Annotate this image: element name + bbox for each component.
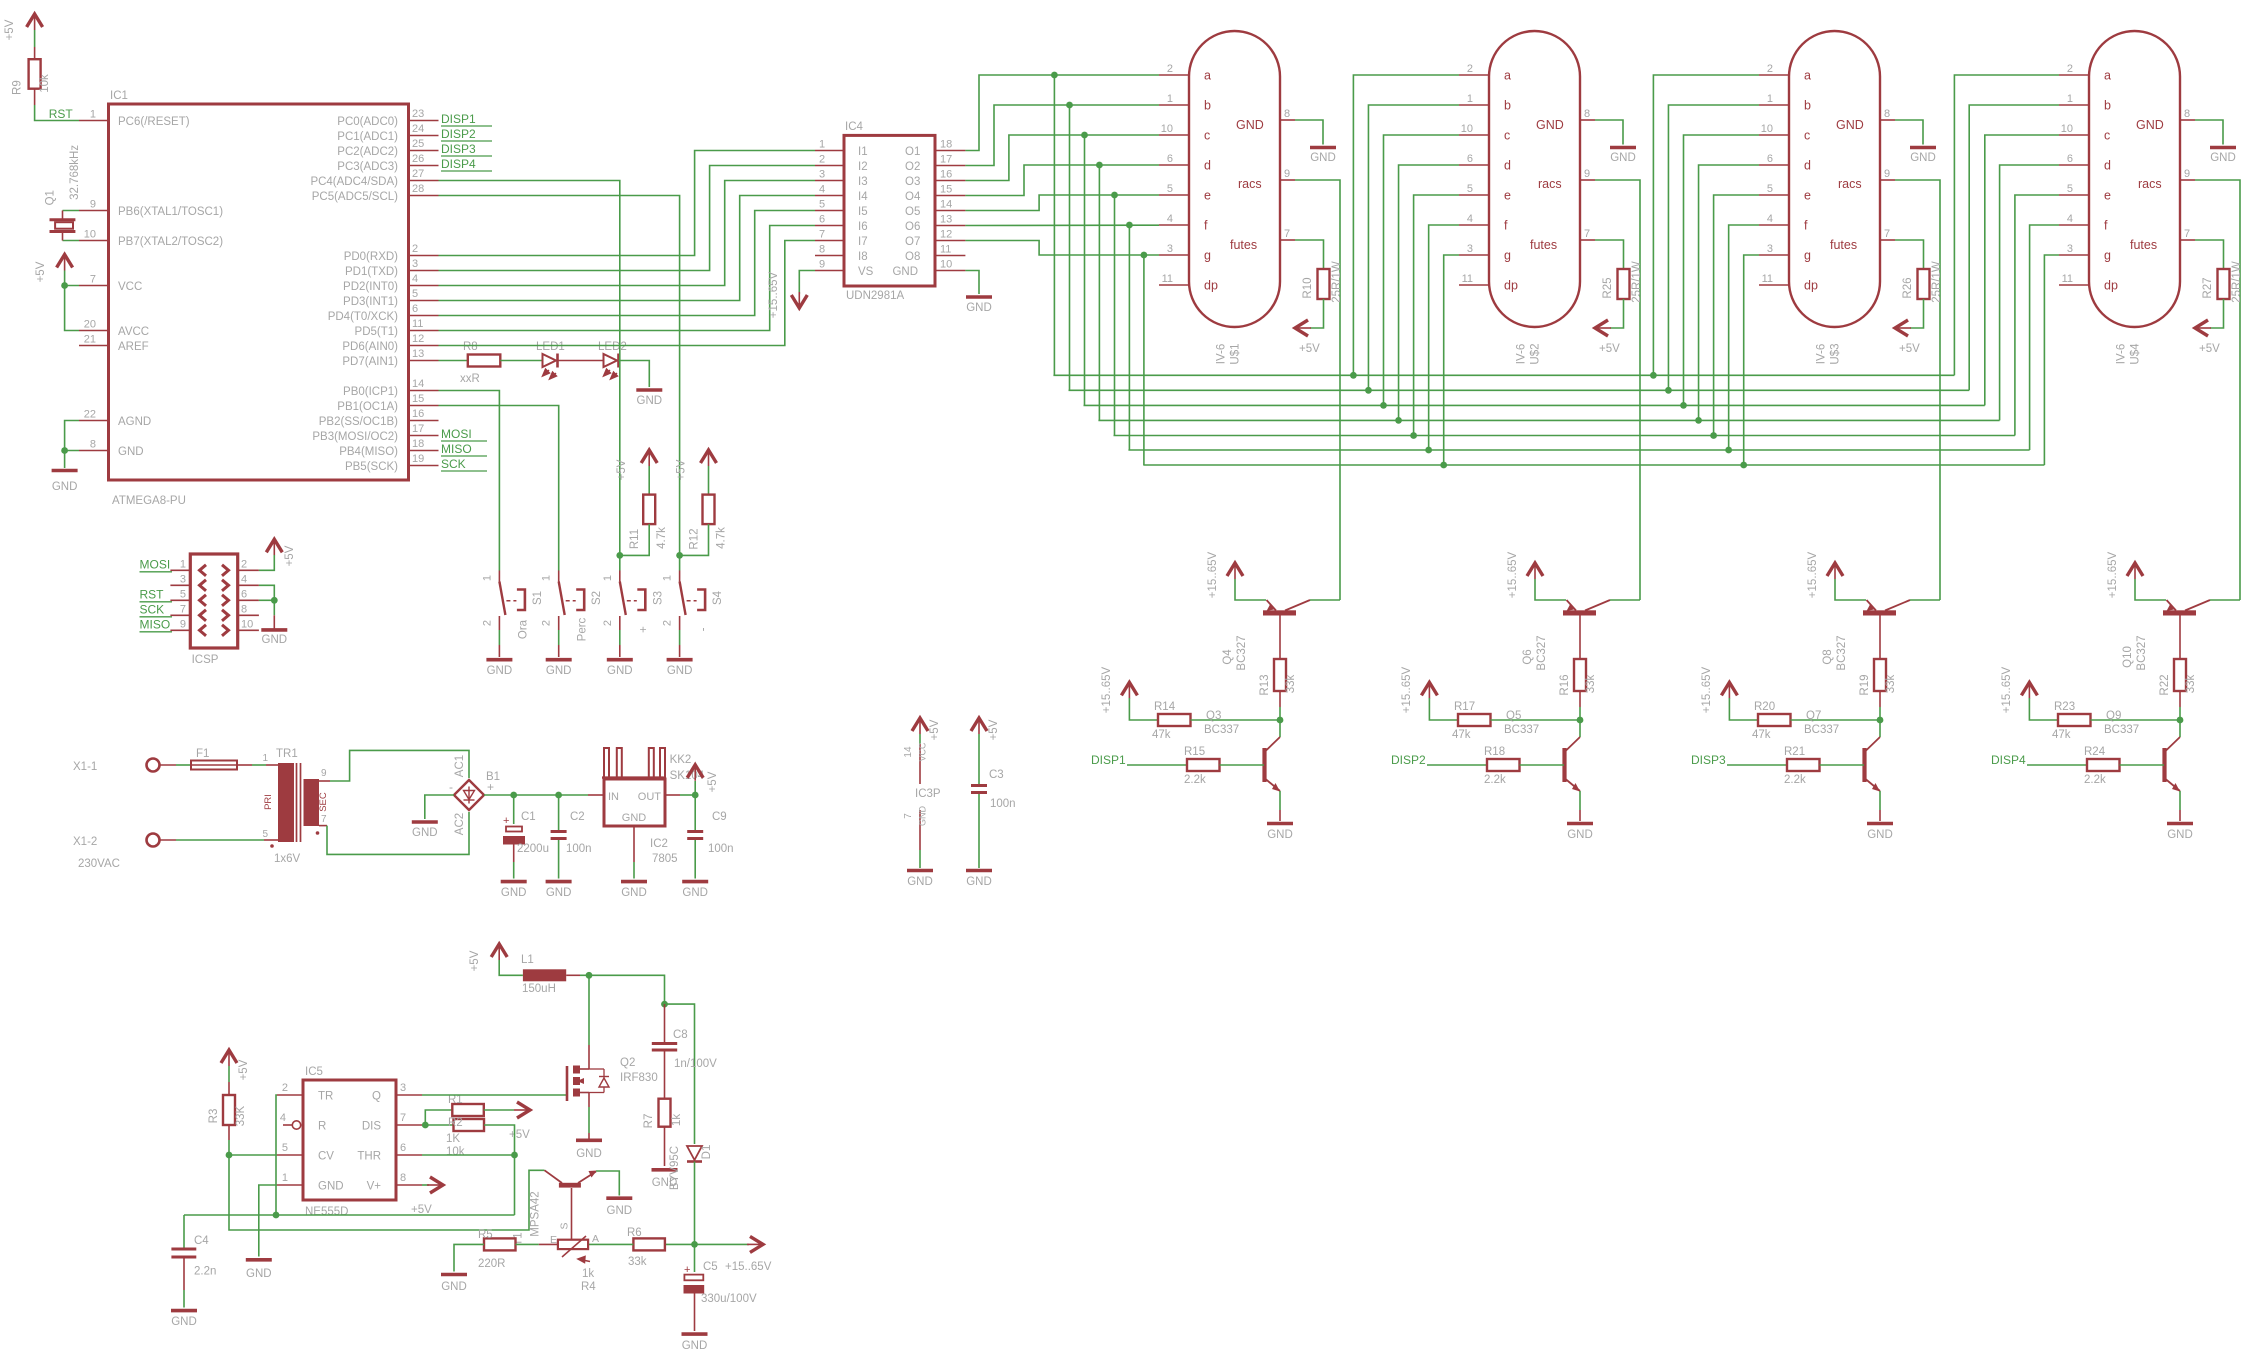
svg-text:R11: R11 xyxy=(629,529,641,549)
power +15..65V arrow (R14) xyxy=(1101,666,1137,713)
svg-text:MISO: MISO xyxy=(140,617,171,631)
svg-text:9: 9 xyxy=(1884,168,1890,180)
connector X1-2 xyxy=(73,834,160,871)
svg-text:GND: GND xyxy=(441,1281,467,1293)
svg-text:3: 3 xyxy=(180,573,186,585)
wire PB1 to S2 xyxy=(439,406,559,571)
VFD tube U$2 IV-6 xyxy=(1459,31,1595,365)
svg-text:18: 18 xyxy=(412,438,424,450)
svg-text:5: 5 xyxy=(2067,183,2073,195)
wire Q8 collector to racs xyxy=(1910,599,1940,601)
svg-text:S3: S3 xyxy=(652,591,664,605)
svg-text:R18: R18 xyxy=(1484,746,1505,758)
svg-text:PB1(OC1A): PB1(OC1A) xyxy=(337,401,398,413)
svg-text:PC6(/RESET): PC6(/RESET) xyxy=(118,116,190,128)
capacitor C2 100n xyxy=(546,795,592,899)
svg-text:11: 11 xyxy=(940,244,951,256)
resistor R20 47k xyxy=(1729,698,1880,741)
power +5V arrow (R12) xyxy=(676,450,717,480)
ground (Q9 emitter) xyxy=(2167,791,2193,841)
svg-text:GND: GND xyxy=(52,481,78,493)
svg-text:a: a xyxy=(1504,69,1511,83)
svg-text:GND: GND xyxy=(607,1205,633,1217)
svg-text:c: c xyxy=(1204,129,1210,143)
svg-text:2: 2 xyxy=(1167,63,1173,75)
svg-text:16: 16 xyxy=(940,169,952,181)
svg-text:+15..65V: +15..65V xyxy=(1507,551,1519,598)
svg-text:PC5(ADC5/SCL): PC5(ADC5/SCL) xyxy=(312,191,398,203)
svg-text:11: 11 xyxy=(2062,273,2073,285)
svg-text:GND: GND xyxy=(171,1316,197,1328)
svg-text:+15..65V: +15..65V xyxy=(1401,666,1413,713)
svg-text:O5: O5 xyxy=(905,206,920,218)
transistor Q6 BC327 (PNP) xyxy=(1522,600,1610,671)
resistor R7 1k xyxy=(643,1099,683,1189)
segment drop wires U$2 with junctions xyxy=(1350,75,1459,468)
switch S4 xyxy=(662,571,725,678)
svg-text:IV-6: IV-6 xyxy=(1516,344,1528,364)
resistor R14 47k xyxy=(1129,698,1280,741)
svg-text:R4: R4 xyxy=(581,1281,596,1293)
ICSP header connector xyxy=(170,554,259,666)
svg-text:2: 2 xyxy=(819,154,825,166)
svg-text:VCC: VCC xyxy=(918,742,928,762)
svg-text:+5V: +5V xyxy=(929,719,941,740)
svg-text:1: 1 xyxy=(1467,93,1473,105)
svg-text:19: 19 xyxy=(412,453,424,465)
svg-text:100n: 100n xyxy=(566,843,592,855)
svg-text:2: 2 xyxy=(481,620,493,626)
ground (LED2) xyxy=(636,390,662,407)
svg-text:6: 6 xyxy=(1167,153,1173,165)
wire +15..65V to Q10 xyxy=(2135,579,2166,600)
resistor R19 33k xyxy=(1859,616,1897,721)
svg-text:b: b xyxy=(1504,99,1511,113)
svg-text:R13: R13 xyxy=(1259,674,1271,695)
svg-text:2.2k: 2.2k xyxy=(1184,774,1206,786)
svg-text:+5V: +5V xyxy=(469,950,481,971)
svg-text:PD4(T0/XCK): PD4(T0/XCK) xyxy=(328,311,398,323)
ground (R5) xyxy=(441,1273,467,1277)
wire VCC/AVCC xyxy=(61,271,79,331)
transistor Q3 BC337 (NPN) xyxy=(1204,710,1280,792)
svg-text:e: e xyxy=(2104,189,2111,203)
IC1 right pins xyxy=(310,108,438,473)
svg-text:CV: CV xyxy=(318,1151,334,1163)
svg-text:+5V: +5V xyxy=(411,1204,432,1216)
svg-text:5: 5 xyxy=(282,1142,288,1154)
svg-text:SCK: SCK xyxy=(140,602,165,616)
svg-text:GND: GND xyxy=(1236,118,1264,132)
svg-text:PB7(XTAL2/TOSC2): PB7(XTAL2/TOSC2) xyxy=(118,236,223,248)
diode D1 BYV95C xyxy=(669,1145,713,1245)
svg-text:R15: R15 xyxy=(1184,746,1205,758)
node driver junction 2 xyxy=(1577,717,1584,724)
svg-text:a: a xyxy=(1204,69,1211,83)
wire U$3 racs to driver xyxy=(1895,180,1940,600)
wire LED1 to LED2 xyxy=(558,360,604,362)
svg-text:47k: 47k xyxy=(2052,729,2071,741)
svg-text:g: g xyxy=(1504,249,1511,263)
svg-text:PD2(INT0): PD2(INT0) xyxy=(343,281,398,293)
svg-text:1n/100V: 1n/100V xyxy=(674,1058,717,1070)
svg-text:5: 5 xyxy=(262,829,268,840)
node driver junction 4 xyxy=(2177,717,2184,724)
svg-text:PB3(MOSI/OC2): PB3(MOSI/OC2) xyxy=(312,431,398,443)
wire TR1 sec9 to bridge AC1 xyxy=(319,750,469,781)
ground (IC5 GND) xyxy=(246,1185,277,1280)
svg-text:U$1: U$1 xyxy=(1230,343,1242,364)
svg-text:+5V: +5V xyxy=(1299,343,1320,355)
svg-text:IV-6: IV-6 xyxy=(2116,344,2128,364)
svg-text:+5V: +5V xyxy=(2199,343,2220,355)
IC5 NE555D body xyxy=(277,1066,422,1218)
svg-text:R19: R19 xyxy=(1859,674,1871,695)
svg-text:2: 2 xyxy=(541,620,553,626)
svg-text:b: b xyxy=(1804,99,1811,113)
svg-text:1: 1 xyxy=(1767,93,1773,105)
svg-text:IV-6: IV-6 xyxy=(1816,344,1828,364)
svg-text:4: 4 xyxy=(1467,213,1473,225)
node output junction xyxy=(691,1241,698,1248)
svg-text:O4: O4 xyxy=(905,191,921,203)
svg-text:MISO: MISO xyxy=(441,442,472,456)
capacitor C5 330u/100V xyxy=(682,1244,757,1352)
svg-text:C3: C3 xyxy=(989,769,1004,781)
svg-text:PD3(INT1): PD3(INT1) xyxy=(343,296,398,308)
IC4 UDN2981A body xyxy=(815,121,965,302)
svg-text:-: - xyxy=(698,627,710,631)
svg-text:9: 9 xyxy=(2184,168,2190,180)
svg-text:12: 12 xyxy=(940,229,952,241)
svg-text:GND: GND xyxy=(966,302,992,314)
LED LED2 xyxy=(598,341,627,379)
svg-text:GND: GND xyxy=(501,887,527,899)
svg-text:BC327: BC327 xyxy=(1836,635,1848,670)
wire output to +15..65V arrow xyxy=(695,1236,772,1273)
svg-text:33k: 33k xyxy=(1585,674,1597,693)
VFD tube U$1 IV-6 xyxy=(1159,31,1295,365)
svg-text:R12: R12 xyxy=(689,528,701,549)
wire Q6 collector to racs xyxy=(1610,599,1640,601)
node C8 junction xyxy=(661,1001,668,1008)
svg-text:R24: R24 xyxy=(2084,746,2106,758)
wire IC5 Q to Q2 gate xyxy=(422,1094,567,1096)
svg-text:Q3: Q3 xyxy=(1206,710,1221,722)
svg-text:10: 10 xyxy=(940,259,952,271)
svg-text:GND: GND xyxy=(246,1268,272,1280)
svg-text:9: 9 xyxy=(90,199,96,211)
svg-text:+5V: +5V xyxy=(1599,343,1620,355)
svg-text:4.7k: 4.7k xyxy=(656,527,668,549)
svg-text:9: 9 xyxy=(321,768,327,779)
wire U$2 GND pin to ground xyxy=(1595,120,1636,164)
svg-text:e: e xyxy=(1204,189,1211,203)
svg-text:I7: I7 xyxy=(858,236,868,248)
svg-text:OUT: OUT xyxy=(638,791,662,803)
wire AGND/GND + ground xyxy=(52,421,79,494)
power +5V arrow (ICSP pin2) xyxy=(259,539,296,570)
wire S3 stem xyxy=(619,555,621,570)
svg-text:GND: GND xyxy=(682,887,708,899)
svg-text:4: 4 xyxy=(280,1112,286,1124)
svg-text:7: 7 xyxy=(1284,228,1290,240)
svg-text:R17: R17 xyxy=(1454,701,1475,713)
ground (T1 emitter) xyxy=(596,1171,632,1217)
svg-text:Q8: Q8 xyxy=(1822,649,1834,664)
svg-text:GND: GND xyxy=(118,446,144,458)
transistor T1 MPSA42 (NPN) xyxy=(513,1170,598,1245)
resistor R9 xyxy=(12,47,51,105)
svg-text:GND: GND xyxy=(892,266,918,278)
svg-text:6: 6 xyxy=(1767,153,1773,165)
IC3P power pins xyxy=(903,742,941,888)
svg-text:BC327: BC327 xyxy=(1536,635,1548,670)
svg-text:racs: racs xyxy=(2138,177,2162,191)
wire X1-1 to F1 xyxy=(160,764,192,766)
svg-text:R9: R9 xyxy=(12,80,24,95)
wire +15..65V to Q6 xyxy=(1535,579,1566,600)
svg-text:23: 23 xyxy=(412,108,424,120)
svg-text:10k: 10k xyxy=(446,1146,465,1158)
power +5V arrow (R1) xyxy=(517,1102,530,1118)
svg-text:C4: C4 xyxy=(194,1235,209,1247)
svg-text:+15..65V: +15..65V xyxy=(768,271,780,318)
svg-text:18: 18 xyxy=(940,139,952,151)
svg-text:BC337: BC337 xyxy=(1804,724,1839,736)
svg-text:I5: I5 xyxy=(858,206,868,218)
wire bridge minus to ground xyxy=(412,795,454,839)
svg-text:PC0(ADC0): PC0(ADC0) xyxy=(337,116,398,128)
svg-text:R22: R22 xyxy=(2159,674,2171,695)
power +15..65V arrow (Q6 emitter) xyxy=(1507,551,1543,598)
svg-text:PD5(T1): PD5(T1) xyxy=(355,326,399,338)
IC1 left pins xyxy=(79,109,223,459)
ground (IC4) xyxy=(966,295,992,299)
wire bridge plus to IC2 IN xyxy=(484,794,604,796)
svg-text:10: 10 xyxy=(1161,123,1173,135)
svg-text:7: 7 xyxy=(321,814,327,825)
svg-text:10k: 10k xyxy=(39,74,51,93)
svg-text:xxR: xxR xyxy=(460,373,480,385)
svg-text:3: 3 xyxy=(819,169,825,181)
svg-text:14: 14 xyxy=(940,199,952,211)
svg-text:THR: THR xyxy=(357,1151,381,1163)
power +5V arrow (VCC) xyxy=(35,255,73,283)
svg-text:I8: I8 xyxy=(858,251,868,263)
svg-text:Q1: Q1 xyxy=(45,190,57,205)
ground (R7) xyxy=(652,1168,678,1172)
VFD tube U$3 IV-6 xyxy=(1759,31,1895,365)
svg-text:+5V: +5V xyxy=(238,1059,250,1080)
resistor R16 33k xyxy=(1559,616,1597,721)
svg-text:7: 7 xyxy=(400,1112,406,1124)
svg-text:S1: S1 xyxy=(532,591,544,605)
power +15..65V arrow (R20) xyxy=(1701,666,1737,713)
segment drop wires U$3 with junctions xyxy=(1650,75,1759,468)
resistor R24 2.2k xyxy=(1991,746,2164,786)
resistor R1 10k xyxy=(425,1094,530,1141)
svg-text:+5V: +5V xyxy=(616,459,628,480)
svg-text:g: g xyxy=(1204,249,1211,263)
bridge rectifier B1 xyxy=(449,755,500,835)
svg-text:13: 13 xyxy=(412,348,424,360)
svg-text:8: 8 xyxy=(1884,108,1890,120)
node CV junction xyxy=(226,1152,233,1159)
svg-text:3: 3 xyxy=(1467,243,1473,255)
svg-text:5: 5 xyxy=(1167,183,1173,195)
svg-text:100n: 100n xyxy=(708,843,734,855)
svg-text:32.768kHz: 32.768kHz xyxy=(69,145,81,200)
svg-text:racs: racs xyxy=(1838,177,1862,191)
svg-text:S2: S2 xyxy=(591,591,603,605)
svg-text:LED1: LED1 xyxy=(536,341,565,353)
power +5V arrow (IC5 V+) xyxy=(411,1177,443,1216)
svg-text:10: 10 xyxy=(84,229,96,241)
power +15..65V arrow (R23) xyxy=(2001,666,2037,713)
power +15..65V arrow (IC4 VS) xyxy=(791,295,807,308)
wire X1-2 to TR1 xyxy=(160,839,279,841)
svg-text:26: 26 xyxy=(412,153,424,165)
svg-text:25R/1W: 25R/1W xyxy=(1331,261,1343,303)
svg-text:150uH: 150uH xyxy=(522,983,556,995)
svg-text:R2: R2 xyxy=(448,1117,463,1129)
svg-text:g: g xyxy=(2104,249,2111,263)
svg-text:1: 1 xyxy=(481,575,493,581)
VFD tube U$4 IV-6 xyxy=(2059,31,2195,365)
svg-text:futes: futes xyxy=(1530,238,1557,252)
svg-text:PC2(ADC2): PC2(ADC2) xyxy=(337,146,398,158)
resistor R5 220R xyxy=(441,1229,558,1293)
svg-text:7: 7 xyxy=(819,229,825,241)
svg-text:2: 2 xyxy=(412,243,418,255)
power +5V arrow (R11) xyxy=(616,450,657,480)
svg-text:9: 9 xyxy=(180,618,186,630)
svg-text:O3: O3 xyxy=(905,176,920,188)
svg-text:2: 2 xyxy=(2067,63,2073,75)
svg-text:27: 27 xyxy=(412,168,424,180)
svg-text:GND: GND xyxy=(412,827,438,839)
svg-text:+15..65V: +15..65V xyxy=(1701,666,1713,713)
svg-text:47k: 47k xyxy=(1152,729,1171,741)
svg-text:R7: R7 xyxy=(643,1114,655,1129)
svg-text:AVCC: AVCC xyxy=(118,326,149,338)
svg-text:7: 7 xyxy=(1884,228,1890,240)
wire PB0 to S1 xyxy=(439,391,500,571)
svg-text:R16: R16 xyxy=(1559,674,1571,695)
svg-text:f: f xyxy=(1504,219,1508,233)
svg-text:a: a xyxy=(1804,69,1811,83)
capacitor C3 100n xyxy=(966,769,1016,888)
resistor R25 25R/1W (futes) xyxy=(1595,240,1643,355)
svg-text:1: 1 xyxy=(180,558,186,570)
svg-text:DISP2: DISP2 xyxy=(1391,753,1426,767)
svg-text:R26: R26 xyxy=(1902,277,1914,298)
segment bus drop wires (U$1) with junctions xyxy=(1051,72,1147,465)
svg-text:33k: 33k xyxy=(628,1256,647,1268)
svg-text:6: 6 xyxy=(1467,153,1473,165)
svg-text:ICSP: ICSP xyxy=(192,654,219,666)
svg-text:GND: GND xyxy=(2210,152,2236,164)
svg-text:8: 8 xyxy=(1584,108,1590,120)
node driver junction 3 xyxy=(1877,717,1884,724)
svg-text:3: 3 xyxy=(412,258,418,270)
svg-text:X1-1: X1-1 xyxy=(73,761,97,773)
wire +15..65V to Q8 xyxy=(1835,579,1866,600)
wires IC4 outputs O1-O7 to tube U$1 segments xyxy=(965,75,1159,255)
svg-text:GND: GND xyxy=(487,665,513,677)
svg-text:25R/1W: 25R/1W xyxy=(1931,261,1943,303)
node +5V junction (IC2 out) xyxy=(692,792,699,799)
wire R12 to S4 junction xyxy=(680,524,709,555)
svg-text:1: 1 xyxy=(541,575,553,581)
svg-text:5: 5 xyxy=(180,588,186,600)
svg-text:MOSI: MOSI xyxy=(140,557,171,571)
svg-text:R6: R6 xyxy=(627,1227,642,1239)
wire U$1 racs to driver xyxy=(1295,180,1340,600)
connector X1-1 xyxy=(73,759,160,774)
svg-text:NE555D: NE555D xyxy=(305,1206,348,1218)
wires IC1 PD0-PD6 to IC4 I1-I7 xyxy=(439,151,816,346)
svg-text:+5V: +5V xyxy=(707,771,719,792)
svg-text:futes: futes xyxy=(1230,238,1257,252)
svg-text:1: 1 xyxy=(1167,93,1173,105)
svg-text:1: 1 xyxy=(262,753,268,764)
fuse F1 xyxy=(191,748,237,770)
svg-text:O7: O7 xyxy=(905,236,920,248)
wire U$2 racs to driver xyxy=(1595,180,1640,600)
net label MOSI MISO SCK at IC1 xyxy=(441,427,487,471)
wire +15..65V to Q4 xyxy=(1235,579,1266,600)
svg-text:4: 4 xyxy=(819,184,825,196)
node S3 junction xyxy=(616,552,623,559)
svg-text:IC3P: IC3P xyxy=(915,788,941,800)
svg-text:R3: R3 xyxy=(208,1109,220,1124)
svg-text:O6: O6 xyxy=(905,221,920,233)
svg-text:e: e xyxy=(1504,189,1511,203)
svg-text:Q2: Q2 xyxy=(620,1057,635,1069)
svg-text:25R/1W: 25R/1W xyxy=(1631,261,1643,303)
svg-text:17: 17 xyxy=(940,154,952,166)
svg-text:1: 1 xyxy=(602,575,614,581)
svg-text:R27: R27 xyxy=(2202,277,2214,298)
svg-text:GND: GND xyxy=(1267,829,1293,841)
svg-text:GND: GND xyxy=(637,395,663,407)
svg-text:futes: futes xyxy=(2130,238,2157,252)
svg-text:33k: 33k xyxy=(2185,674,2197,693)
node S4 junction xyxy=(676,552,683,559)
svg-text:13: 13 xyxy=(940,214,952,226)
svg-text:+15..65V: +15..65V xyxy=(1207,551,1219,598)
svg-text:R23: R23 xyxy=(2054,701,2075,713)
svg-text:Q5: Q5 xyxy=(1506,710,1521,722)
power +15..65V arrow (Q10 emitter) xyxy=(2107,551,2143,598)
svg-text:d: d xyxy=(2104,159,2111,173)
svg-text:11: 11 xyxy=(1762,273,1773,285)
svg-text:7: 7 xyxy=(903,813,914,819)
svg-text:I2: I2 xyxy=(858,161,868,173)
svg-text:D1: D1 xyxy=(701,1145,713,1160)
svg-text:11: 11 xyxy=(412,318,423,330)
resistor R13 33k xyxy=(1259,616,1297,721)
IC1 ATMEGA8-PU body xyxy=(109,90,409,507)
svg-text:F1: F1 xyxy=(196,748,209,760)
svg-text:C5: C5 xyxy=(703,1261,718,1273)
svg-text:GND: GND xyxy=(2136,118,2164,132)
switch S3 xyxy=(602,571,665,678)
resistor R11 xyxy=(629,466,668,549)
svg-text:+15..65V: +15..65V xyxy=(2107,551,2119,598)
